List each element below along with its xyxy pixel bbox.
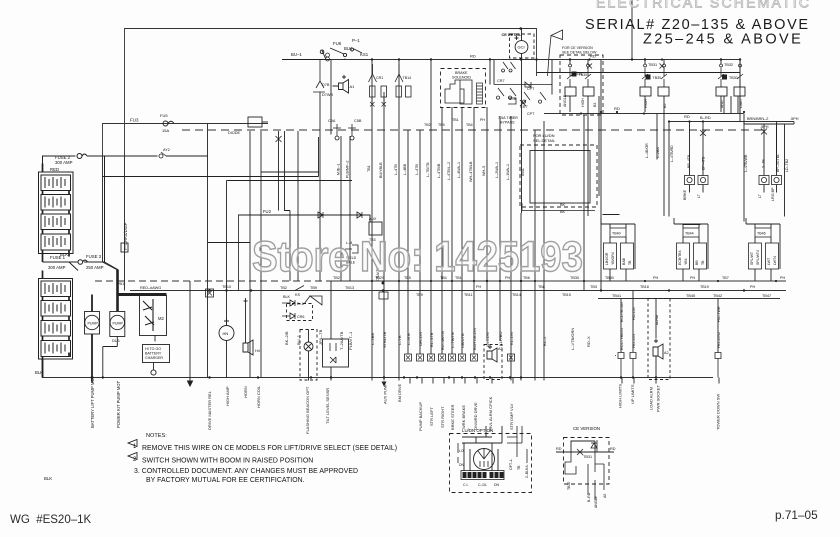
ce contact X2 (577, 449, 583, 455)
svg-text:TB30: TB30 (567, 482, 571, 490)
wire mid horizontal y215 (239, 215, 371, 290)
wire sw3 tails (724, 96, 738, 114)
svg-text:TB40: TB40 (612, 232, 621, 236)
svg-text:BM DRVE: BM DRVE (397, 384, 402, 402)
wire power kit pump drop (116, 381, 118, 384)
svg-text:HORN: HORN (243, 386, 248, 398)
wire vertical v420 (419, 130, 421, 354)
horn A1 plus (333, 75, 347, 86)
svg-text:BP–4TB: BP–4TB (702, 156, 706, 170)
svg-text:NOTES:: NOTES: (146, 433, 167, 439)
svg-text:AUX: AUX (369, 217, 377, 221)
limit switch pair SW3 (718, 64, 743, 87)
svg-text:L–4B/OR: L–4B/OR (645, 143, 649, 158)
svg-text:D7B: D7B (322, 83, 330, 87)
contact X right b (761, 129, 767, 135)
battery text fuse1 (48, 252, 104, 270)
wire right risers (669, 114, 777, 222)
wire vertical v372 (371, 60, 373, 381)
selector wiper lines (478, 449, 490, 467)
svg-text:FUSE 3: FUSE 3 (86, 254, 102, 259)
svg-text:Store No: 1425193: Store No: 1425193 (252, 232, 583, 280)
svg-text:BL–2: BL–2 (542, 336, 547, 346)
relay RM2 rotated labels (678, 250, 705, 265)
svg-text:Z25–245 & ABOVE: Z25–245 & ABOVE (643, 32, 803, 48)
fuse FU6 symbol (326, 53, 330, 61)
svg-text:P–1: P–1 (352, 38, 360, 43)
svg-text:DN: DN (494, 483, 500, 487)
wire bus y290 (130, 290, 786, 292)
svg-text:TB30: TB30 (605, 276, 614, 280)
svg-text:FLASHING BEACON OPT: FLASHING BEACON OPT (305, 386, 310, 434)
label D6 CR6 (283, 295, 304, 319)
connector symbol c462 (459, 354, 466, 361)
wire vertical v599 (598, 96, 600, 196)
svg-text:TB9: TB9 (416, 293, 423, 297)
switch group CR1 (369, 64, 387, 107)
label CR7 C-8 (497, 79, 528, 109)
label BRN ORN PH row (747, 117, 799, 129)
svg-text:X–4B: X–4B (762, 159, 766, 168)
brake solenoid dashed box (441, 69, 486, 108)
svg-text:ECL/TB–DN: ECL/TB–DN (620, 302, 624, 322)
note flag 2 mid (304, 296, 322, 305)
svg-text:TB11: TB11 (464, 293, 473, 297)
relay cluster CR7 box (494, 84, 552, 86)
block tb30 ce (572, 72, 588, 78)
svg-text:A3: A3 (498, 347, 503, 351)
wire vertical v278 (278, 131, 280, 211)
svg-text:BLK: BLK (283, 295, 291, 299)
svg-text:250 AMP: 250 AMP (86, 265, 104, 270)
svg-text:HIGH AMP: HIGH AMP (225, 386, 230, 406)
contact X ce riser (587, 64, 592, 69)
svg-text:TB18: TB18 (640, 285, 649, 289)
svg-text:TB15: TB15 (562, 293, 571, 297)
wire drive relay vertical (207, 124, 209, 378)
contact pair under gci (502, 62, 516, 72)
wire left drop to contactor (102, 157, 104, 262)
svg-text:RD: RD (590, 54, 596, 59)
svg-text:SEL DETAIL: SEL DETAIL (533, 138, 556, 143)
svg-text:TB8: TB8 (538, 285, 545, 289)
connector c205 (206, 289, 214, 297)
wire vertical v408 (407, 130, 409, 354)
switch on bus y290 (295, 286, 304, 291)
junction dots on key bus (371, 27, 741, 61)
svg-text:LRG BP: LRG BP (771, 187, 775, 201)
lu/dn label LO (459, 449, 500, 487)
labels under SW3 (720, 98, 743, 108)
svg-text:LU/DN OPTION: LU/DN OPTION (462, 428, 493, 433)
svg-text:HO–DN: HO–DN (632, 307, 636, 320)
pump motor M2 terminals (103, 337, 118, 378)
svg-text:7.5A TIMER: 7.5A TIMER (498, 116, 518, 120)
svg-text:CE DETAIL: CE DETAIL (502, 33, 522, 37)
svg-text:CR6: CR6 (297, 315, 304, 319)
svg-text:TB: TB (517, 465, 521, 470)
connector symbol c420 (417, 354, 424, 361)
diode CR6 (282, 313, 295, 319)
wire bus y298 (598, 298, 780, 300)
label timer bypass (498, 116, 518, 125)
svg-text:FU5: FU5 (160, 113, 168, 118)
battery bank 2 enclosure (39, 279, 73, 360)
wire right bus y112 (544, 113, 744, 115)
svg-text:L–4WA–1: L–4WA–1 (457, 162, 461, 178)
svg-text:TB30: TB30 (729, 76, 738, 80)
svg-text:PLB/MF–2: PLB/MF–2 (346, 161, 350, 178)
wire vertical v399 (398, 60, 400, 381)
svg-text:BATTERY LIFT PUMP MOT: BATTERY LIFT PUMP MOT (90, 375, 95, 428)
label BK pair (560, 203, 566, 214)
svg-text:L–4TB/B: L–4TB/B (437, 163, 441, 178)
label 15 AMP (160, 113, 169, 133)
wire GCI drop (521, 29, 523, 214)
pump motor M1 terminals (91, 295, 93, 378)
svg-text:LT: LT (697, 193, 701, 198)
battery bank1 series links (43, 164, 70, 263)
svg-text:OR–DN: OR–DN (418, 332, 423, 346)
horn A1 speaker (339, 80, 349, 94)
wire vertical v320 (319, 92, 321, 281)
travel alarm speaker (487, 345, 497, 362)
svg-text:BK: BK (560, 203, 566, 207)
flasher component right of FU3 (248, 117, 262, 127)
labels under fuse holders (683, 187, 775, 201)
svg-text:TB7: TB7 (722, 276, 729, 280)
labels on bus y281 TB row (333, 276, 659, 280)
tilt sensor contacts (330, 343, 336, 363)
svg-text:SPL/WT4: SPL/WT4 (756, 250, 760, 265)
svg-text:PH: PH (476, 285, 481, 289)
relay RM1 rotated labels (605, 252, 632, 265)
wire vertical v298 (297, 131, 299, 281)
mid horizontal FU2 line (239, 215, 371, 222)
battery bus bar thick (118, 293, 167, 296)
svg-text:TB31: TB31 (648, 63, 657, 67)
wire down alarm drops (621, 291, 718, 378)
svg-text:RD: RD (470, 54, 476, 59)
svg-text:TB2: TB2 (280, 286, 287, 290)
svg-text:PB1: PB1 (117, 282, 124, 286)
battery B1 (41, 175, 71, 191)
beacon diode dashed box (287, 304, 313, 321)
pump motor M1 enclosure (85, 312, 100, 335)
fiend bale text (346, 256, 357, 265)
relay module RM3 tb box (755, 228, 771, 237)
svg-text:RD: RD (684, 114, 690, 119)
wire vertical v452 (451, 107, 453, 354)
wire right bus y124 (744, 122, 794, 125)
net labels right mid (620, 302, 721, 325)
svg-text:LOAD ALRM: LOAD ALRM (649, 387, 654, 410)
wire vertical v431 (430, 60, 432, 355)
wire horn vertical (226, 181, 228, 378)
wire second left bus FU3 (103, 124, 269, 158)
svg-text:TILT LEVEL SENSR: TILT LEVEL SENSR (325, 388, 330, 424)
svg-text:C5B: C5B (354, 119, 362, 123)
resistor box SW3b (734, 87, 745, 96)
relay cluster right small CR9 (522, 92, 546, 103)
svg-text:A1: A1 (350, 84, 356, 89)
battery negative drop (42, 359, 44, 378)
svg-text:T–2A/VTB: T–2A/VTB (339, 331, 344, 350)
fuse sym f718 (715, 353, 721, 378)
svg-text:TB: TB (701, 260, 705, 265)
svg-text:SWITCH SHOWN WITH BOOM IN RAIS: SWITCH SHOWN WITH BOOM IN RAISED POSITIO… (142, 458, 313, 465)
wire vertical v657 (656, 114, 658, 160)
svg-text:LO: LO (459, 449, 464, 453)
wire ce bus y72 (537, 72, 741, 74)
wire vertical v384 (383, 92, 385, 381)
block tb30 group2 (646, 75, 662, 81)
svg-text:REMOVE THIS WIRE ON CE MODELS: REMOVE THIS WIRE ON CE MODELS FOR LIFT/D… (142, 445, 397, 452)
svg-text:BATTERY: BATTERY (145, 352, 162, 356)
speaker H4 (243, 298, 253, 355)
svg-text:2: 2 (133, 457, 137, 463)
svg-text:A2: A2 (664, 351, 669, 355)
net labels top row (337, 161, 511, 182)
svg-text:BP–4TB: BP–4TB (687, 154, 691, 168)
battery B4 (41, 234, 71, 250)
wire vertical v511 (510, 116, 512, 381)
battery bank 1 enclosure (39, 172, 74, 254)
labels on bus y290 (117, 282, 354, 297)
battery B3 (41, 214, 71, 230)
svg-text:FOR CE VERSION: FOR CE VERSION (562, 46, 593, 50)
wire rm2 feeder (683, 224, 701, 226)
labels TB row y279 extra (404, 276, 785, 289)
battery cable thick red vertical (116, 270, 119, 311)
svg-text:B–RD: B–RD (700, 115, 711, 120)
junction dots right buses (600, 111, 745, 123)
svg-text:300 AMP: 300 AMP (55, 160, 73, 165)
battery charger box (143, 345, 170, 363)
diode on fu2 line b (357, 212, 362, 218)
ce version dashed box (564, 438, 610, 485)
wire CR cluster feeders (490, 60, 552, 95)
svg-text:15A: 15A (162, 128, 169, 133)
svg-text:ANGLE: ANGLE (594, 495, 598, 508)
svg-text:PUMP BACKUP: PUMP BACKUP (418, 402, 423, 431)
svg-text:BLK: BLK (35, 370, 43, 375)
svg-text:KS: KS (295, 293, 301, 297)
label CR5A CR5B (328, 119, 362, 123)
svg-text:HORN COIL: HORN COIL (256, 385, 261, 408)
wire right verticals to fuse holders (690, 122, 777, 172)
svg-text:L–TB: L–TB (397, 335, 402, 345)
svg-text:C–DL: C–DL (478, 483, 487, 487)
svg-text:BAB: BAB (622, 257, 626, 265)
wire under ludn box (522, 203, 595, 211)
svg-text:ALRM: ALRM (655, 315, 659, 325)
svg-text:BK–2/B: BK–2/B (284, 331, 289, 345)
svg-text:TB41: TB41 (612, 294, 621, 298)
fuse holder FH2 (698, 171, 708, 193)
svg-text:.5PH: .5PH (790, 117, 799, 121)
lu/dn selector circle (474, 449, 495, 470)
svg-text:A5: A5 (603, 494, 607, 498)
wire battery aux feed y156 (105, 155, 208, 157)
svg-text:TB9: TB9 (310, 286, 317, 290)
lu/dn option dashed box (450, 434, 532, 493)
wire tilt drops (330, 281, 332, 381)
svg-text:TB13: TB13 (345, 286, 354, 290)
label FOR CE VERSION SEE DETAIL BELOW (562, 46, 597, 55)
svg-text:TB14: TB14 (512, 293, 521, 297)
battery text neg (35, 370, 52, 481)
beacon lamp X (304, 342, 313, 351)
svg-text:LWT: LWT (767, 257, 771, 265)
svg-text:TRVL ALRM CPICK: TRVL ALRM CPICK (488, 396, 493, 432)
ground arrow at v384 (382, 378, 387, 387)
wire vertical v442 (441, 107, 443, 354)
svg-text:M2: M2 (158, 316, 164, 321)
contact pair on y156 (159, 152, 166, 158)
svg-text:2–BLK/L: 2–BLK/L (525, 465, 529, 478)
label DIODE (322, 83, 333, 97)
svg-text:BL–4TB: BL–4TB (429, 332, 434, 347)
connector small box on chassis line (121, 243, 128, 252)
connector symbol c474 (471, 354, 478, 361)
diode D6 (282, 300, 295, 306)
relay module RM2 wires (674, 218, 708, 281)
wire key switch bus (326, 60, 740, 114)
svg-text:TB30: TB30 (573, 72, 582, 76)
battery B2 (41, 195, 71, 211)
svg-text:RD–X: RD–X (586, 336, 591, 347)
wire cross bus y176 (103, 137, 319, 177)
ce drop labels (567, 482, 607, 508)
svg-text:BU–1: BU–1 (291, 52, 302, 57)
down alarm speaker (653, 339, 663, 359)
svg-text:BU/TLB–DN: BU/TLB–DN (472, 328, 477, 350)
beacon dashed box (300, 330, 317, 381)
svg-text:AY2: AY2 (163, 148, 170, 152)
svg-text:DN: DN (459, 463, 465, 467)
svg-text:PH: PH (653, 276, 659, 280)
svg-text:F–CHAS/DISP: F–CHAS/DISP (123, 222, 128, 250)
svg-text:L–2BA: L–2BA (656, 147, 660, 158)
wire top-left bus (125, 29, 537, 157)
junction dots bus y281 (371, 280, 777, 282)
ground arrow under bus (188, 378, 193, 387)
svg-text:UB/UTB: UB/UTB (460, 333, 465, 348)
svg-text:TB30: TB30 (653, 76, 662, 80)
wire cross bus y172 (261, 171, 319, 173)
svg-text:GCI: GCI (518, 45, 525, 50)
svg-text:L–VTB/ORN: L–VTB/ORN (570, 328, 575, 350)
wire vertical v286 (289, 211, 291, 282)
resistor box SW1b (583, 87, 594, 96)
svg-text:HO–DN: HO–DN (631, 334, 636, 348)
travel alarm dashed box (484, 345, 502, 380)
pump motor M2 enclosure (110, 312, 125, 337)
wire bus y281 dashed part (95, 280, 330, 282)
note flag triangle 1 (128, 440, 137, 447)
wire vertical v544 (543, 121, 545, 381)
svg-text:BRAKE: BRAKE (455, 71, 468, 75)
wire vertical v500 (499, 116, 501, 341)
svg-text:TB1: TB1 (367, 165, 371, 172)
svg-text:PH: PH (690, 276, 695, 280)
svg-text:L–2WA–1: L–2WA–1 (495, 162, 499, 178)
svg-text:BRKE STEER: BRKE STEER (450, 405, 455, 430)
wire vertical v341 (340, 136, 342, 281)
svg-text:DIODE: DIODE (228, 131, 240, 135)
svg-text:LT: LT (758, 193, 762, 198)
GCI circle (515, 41, 528, 54)
wire vertical v474 (473, 107, 475, 354)
svg-text:p.71–05: p.71–05 (775, 508, 818, 522)
horn HN circle (219, 326, 234, 341)
label CPT marks (527, 87, 535, 116)
label aux barrel (369, 217, 377, 242)
svg-text:D7WB: D7WB (322, 93, 333, 97)
svg-text:SOLENOID: SOLENOID (452, 76, 471, 80)
svg-text:POWER KIT PUMP MOT: POWER KIT PUMP MOT (116, 380, 121, 428)
svg-text:CE VERSION: CE VERSION (573, 426, 600, 431)
block tb30 group3 (722, 75, 738, 81)
battery B8 (41, 341, 71, 357)
label brake solenoid (452, 71, 471, 80)
wire dashed option line y130 (182, 129, 765, 131)
svg-text:BB: BB (695, 260, 699, 265)
svg-text:L–2BB: L–2BB (370, 333, 375, 345)
svg-text:WG #ES20–1K: WG #ES20–1K (10, 514, 92, 526)
svg-text:WH–4TB/LB: WH–4TB/LB (469, 161, 473, 182)
svg-text:STR DMP VLV: STR DMP VLV (509, 403, 514, 430)
svg-text:TB19: TB19 (700, 285, 709, 289)
fuse F2 symbol (77, 153, 87, 158)
wire SW2 drops (645, 60, 664, 217)
svg-text:H4: H4 (255, 349, 260, 353)
svg-text:TB: TB (628, 260, 632, 265)
svg-text:FU6: FU6 (333, 41, 342, 46)
svg-text:PH: PH (480, 118, 485, 122)
svg-text:L–1WA–1: L–1WA–1 (506, 164, 510, 180)
wire vertical v487 (486, 107, 488, 341)
wire SW1 drops (570, 60, 601, 290)
svg-text:TB4L: TB4L (521, 168, 525, 177)
svg-text:ECL–TB/DN: ECL–TB/DN (619, 328, 624, 350)
terminal cells dark (463, 472, 504, 478)
svg-text:TB10: TB10 (222, 285, 231, 289)
lu/dn right rotated labels (509, 459, 529, 478)
timer bypass bracket (508, 98, 526, 106)
wire rm1 feeder (603, 214, 620, 216)
wire BU-1 stub (282, 59, 331, 61)
svg-text:B3: B3 (593, 103, 597, 107)
resistor box SW3a (716, 87, 727, 96)
svg-text:WH–5: WH–5 (482, 166, 486, 176)
limit switch pair SW2 (642, 64, 667, 87)
svg-text:L–4TB/RD: L–4TB/RD (670, 145, 674, 162)
lu/dn right leads (507, 426, 527, 463)
svg-text:MJE–1: MJE–1 (337, 164, 341, 175)
wire right bus y121 (669, 121, 794, 123)
svg-text:PUMP: PUMP (88, 322, 99, 326)
horn plus (224, 319, 229, 324)
pump motor M2 (110, 315, 124, 329)
svg-text:DU1: DU1 (112, 338, 121, 343)
fuse F1 wire bottom bank1 (43, 262, 119, 271)
svg-text:PH: PH (750, 285, 755, 289)
svg-text:TB46: TB46 (757, 232, 766, 236)
ce drops below box (588, 478, 604, 500)
svg-text:1: 1 (133, 444, 137, 450)
